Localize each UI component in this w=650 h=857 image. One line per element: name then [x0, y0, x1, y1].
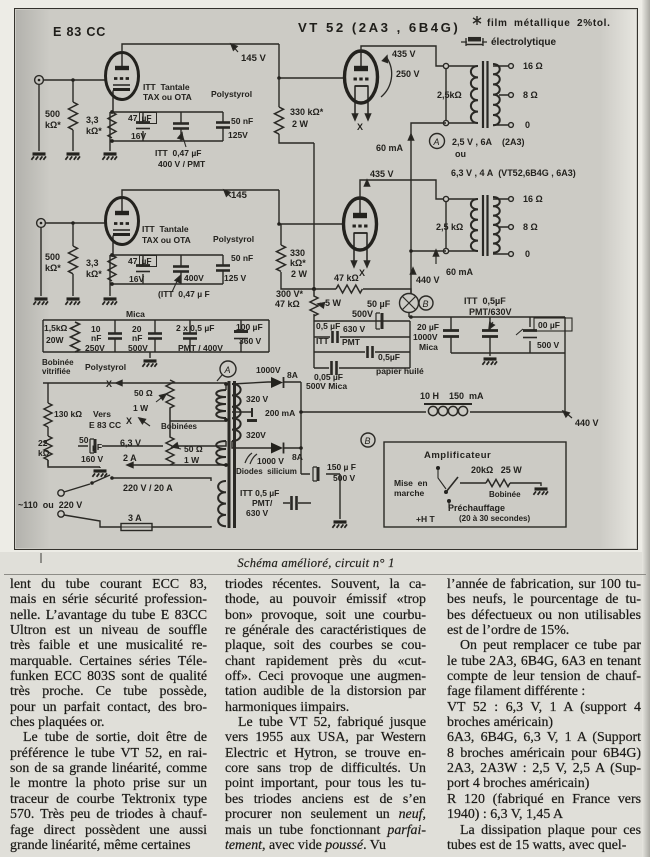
svg-text:ITT 0,47 µF: ITT 0,47 µF	[155, 148, 201, 158]
svg-text:ou: ou	[455, 149, 466, 159]
label 150uF 500V	[327, 462, 356, 483]
label 3,3k ch2	[86, 258, 102, 279]
svg-text:150 µ F: 150 µ F	[327, 462, 356, 472]
legend electrolytic capacitor symbol	[461, 38, 487, 46]
bias bus top ch2	[112, 254, 223, 256]
label 47uF 16V	[128, 113, 152, 141]
label 20nF 500V Mica	[126, 309, 148, 353]
heater secondary winding upper left	[216, 390, 226, 418]
fuse 3A	[64, 515, 211, 531]
label ITT 0,5uF PMT/630V	[464, 296, 512, 317]
svg-text:ITT: ITT	[316, 336, 330, 346]
filament arrows X	[352, 114, 370, 132]
ladder rung 0.5uF papier huile (C9)	[314, 346, 410, 358]
svg-text:500V Mica: 500V Mica	[306, 381, 347, 391]
svg-text:50 µF: 50 µF	[367, 299, 391, 309]
resistor 330k ch2 (R6)	[277, 224, 315, 289]
wire bus to ground	[110, 112, 112, 151]
capacitor 2x0.5uF PMT 400V (C16)	[183, 320, 197, 352]
ground under C12	[482, 359, 497, 365]
label 50uF 500V	[352, 299, 391, 319]
wire jack to grid	[45, 222, 105, 224]
resistor 3.3k cathode (R2)	[108, 112, 116, 138]
decoupling row right edge	[268, 320, 270, 352]
circled B left of box	[361, 433, 375, 447]
choke 10H 150mA	[301, 404, 565, 416]
tube V1b E83CC	[106, 197, 139, 257]
capacitor 20uF 1000V mica (C11)	[443, 317, 459, 353]
diode D2 bottom	[232, 441, 301, 454]
svg-text:330 kΩ*: 330 kΩ*	[290, 107, 324, 117]
svg-text:marche: marche	[394, 488, 425, 498]
wire jack ground drop	[40, 227, 42, 296]
ground in box	[533, 489, 548, 495]
diode D1 top	[232, 377, 301, 388]
label 22k	[38, 438, 50, 458]
resistor 22k (R11)	[44, 436, 52, 466]
heater secondary winding lower left	[216, 441, 226, 465]
circled A heater winding	[430, 134, 445, 149]
svg-text:0,5µF: 0,5µF	[378, 352, 400, 362]
svg-text:kΩ*: kΩ*	[45, 263, 61, 273]
svg-text:200 mA: 200 mA	[265, 408, 295, 418]
svg-text:125V: 125V	[228, 130, 248, 140]
svg-text:630 V: 630 V	[246, 508, 269, 518]
capacitor 20nF 500V (C15)	[148, 320, 162, 352]
secondary coil	[493, 64, 500, 125]
capacitor 150uF 500V (C20)	[301, 467, 340, 481]
wire grid VT52 drop	[279, 44, 345, 78]
svg-text:2,5kΩ: 2,5kΩ	[437, 90, 462, 100]
svg-text:vitrifiée: vitrifiée	[42, 367, 71, 376]
svg-text:Mica: Mica	[419, 342, 438, 352]
svg-text:Polystyrol: Polystyrol	[85, 362, 126, 372]
label Vers E83CC	[89, 409, 121, 430]
resistor 330k grid leak VT52 (R3)	[275, 78, 315, 143]
potentiometer 50 Ohm 1W lower (P2)	[166, 412, 181, 465]
label 50ohm 1W upper	[133, 388, 153, 413]
svg-text:220 V / 20 A: 220 V / 20 A	[123, 483, 173, 493]
svg-text:16 Ω: 16 Ω	[523, 61, 543, 71]
label 47k 300V	[275, 273, 359, 309]
wire anode VT52 to transformer	[361, 46, 443, 66]
bias bus bottom ch2	[112, 283, 223, 285]
svg-text:500: 500	[45, 109, 60, 119]
label 110 ou 220V	[18, 500, 82, 510]
svg-text:PMT: PMT	[342, 337, 361, 347]
svg-text:125 V: 125 V	[224, 273, 247, 283]
ground	[102, 299, 117, 305]
svg-text:0: 0	[525, 120, 530, 130]
SVG schematic placeholder	[0, 0, 650, 552]
left terminal joining wire	[445, 68, 447, 121]
svg-text:250 V: 250 V	[396, 69, 420, 79]
terminal circle T2 top	[443, 196, 448, 201]
svg-text:kΩ*: kΩ*	[290, 258, 306, 268]
capacitor ITT 0,5uF 630V bottom (C19)	[283, 496, 311, 510]
svg-text:B: B	[423, 299, 429, 309]
output transformer T2	[443, 195, 513, 256]
svg-text:A: A	[224, 365, 231, 375]
svg-text:400V: 400V	[184, 273, 204, 283]
svg-text:330: 330	[290, 248, 305, 258]
svg-text:50 nF: 50 nF	[231, 116, 253, 126]
svg-text:435 V: 435 V	[370, 169, 394, 179]
ground	[102, 154, 117, 160]
svg-text:5 W: 5 W	[325, 298, 342, 308]
tube V2 VT52 channel1	[345, 51, 378, 115]
svg-text:1000 V: 1000 V	[257, 456, 284, 466]
svg-text:E 83 CC: E 83 CC	[53, 25, 106, 39]
resistor 500k grid (R1)	[69, 78, 78, 151]
filter top rail	[409, 316, 565, 318]
filter right vertical	[564, 317, 566, 412]
wire anode VT52 ch2 to transformer	[360, 180, 443, 199]
capacitor 47uF ch2 C4	[136, 255, 157, 284]
svg-text:Amplificateur: Amplificateur	[424, 450, 491, 461]
svg-text:X: X	[357, 122, 363, 132]
svg-text:µF: µF	[142, 256, 152, 266]
control box rectangle	[384, 442, 566, 527]
label 500k ch2	[45, 252, 61, 273]
label 50uF 160V	[79, 435, 104, 464]
svg-text:0: 0	[525, 249, 530, 259]
decoupling ladder left rail	[313, 321, 315, 368]
svg-text:kΩ*: kΩ*	[86, 126, 102, 136]
wire bus to ground ch2	[110, 255, 112, 296]
label Mise en marche	[394, 478, 428, 498]
bias bus top	[112, 111, 223, 113]
svg-text:6,3 V , 4 A (VT52,6B4G , 6A3): 6,3 V , 4 A (VT52,6B4G , 6A3)	[451, 168, 576, 178]
svg-text:+H T: +H T	[416, 514, 435, 524]
svg-text:20W: 20W	[46, 335, 64, 345]
svg-text:400 V / PMT: 400 V / PMT	[158, 159, 206, 169]
channel1 component labels	[143, 82, 253, 169]
ladder top rung	[314, 320, 410, 322]
svg-text:Diodes silicium: Diodes silicium	[236, 467, 297, 476]
label 330k 2W	[290, 107, 324, 129]
label 1000V 8A bottom with slashes	[245, 452, 303, 466]
meter fuse circle	[400, 294, 419, 313]
decoupling ladder right rail	[409, 321, 411, 368]
label 330k ch2	[290, 248, 308, 279]
capacitor 100uF 360V (C17)	[234, 320, 248, 352]
label 0.5uF papier	[376, 352, 424, 376]
primary coil	[448, 66, 478, 123]
B+ rail from T1	[411, 123, 446, 294]
svg-text:Polystyrol: Polystyrol	[211, 89, 252, 99]
decoupling row top bus	[43, 319, 269, 321]
wire 2A arrow line	[127, 462, 226, 467]
label 100uF boxed	[534, 318, 572, 350]
svg-text:ITT Tantale: ITT Tantale	[143, 82, 190, 92]
svg-text:(20 à 30 secondes): (20 à 30 secondes)	[459, 514, 530, 523]
resistor 3.3k cathode ch2 (R5)	[108, 255, 116, 281]
svg-text:nF: nF	[91, 333, 101, 343]
svg-text:50 Ω: 50 Ω	[134, 388, 153, 398]
svg-text:Préchauffage: Préchauffage	[448, 503, 505, 513]
label 50ohm 1W lower	[184, 444, 203, 465]
145 tick arrow ch2	[224, 190, 231, 197]
ground stub decoupling row	[149, 352, 151, 358]
label ITT 0,5uF PMT 630V	[240, 488, 279, 518]
svg-text:8A: 8A	[287, 370, 298, 380]
svg-text:Mica: Mica	[126, 309, 145, 319]
resistor 1.5k 20W (R9)	[71, 322, 80, 352]
svg-text:100 µF: 100 µF	[236, 322, 263, 332]
wire jack ground drop	[38, 84, 40, 151]
svg-text:630 V: 630 V	[343, 324, 366, 334]
svg-text:1000V: 1000V	[413, 332, 438, 342]
svg-text:20kΩ 25 W: 20kΩ 25 W	[471, 465, 522, 475]
capacitor 100uF 500V (C13)	[516, 317, 537, 353]
ground	[33, 299, 48, 305]
titles and legend	[53, 18, 611, 48]
label 3,3 kOhm	[86, 115, 102, 136]
label 100uF 360V	[236, 322, 263, 346]
svg-text:250V: 250V	[85, 343, 105, 353]
svg-text:PMT/: PMT/	[252, 498, 273, 508]
labels 0.5uF 630V ITT PMT	[316, 321, 366, 347]
svg-text:ITT 0,5µF: ITT 0,5µF	[464, 296, 506, 306]
svg-text:(ITT 0,47 µ F: (ITT 0,47 µ F	[158, 289, 210, 299]
svg-text:00 µF: 00 µF	[538, 320, 560, 330]
X arrow top	[106, 379, 226, 389]
capacitor 0.47uF ch2 C5	[173, 255, 189, 284]
svg-text:Vers: Vers	[93, 409, 111, 419]
labels T2	[436, 194, 543, 259]
svg-text:16V: 16V	[131, 131, 146, 141]
svg-text:ITT 0,5 µF: ITT 0,5 µF	[240, 488, 279, 498]
svg-text:kΩ*: kΩ*	[45, 120, 61, 130]
svg-text:3,3: 3,3	[86, 258, 99, 268]
svg-text:130 kΩ: 130 kΩ	[54, 409, 82, 419]
ladder rung 0.5uF 630V (C8)	[314, 331, 410, 343]
440V output arrow	[561, 409, 598, 428]
svg-text:47 kΩ: 47 kΩ	[275, 299, 300, 309]
label 1,5k 20W	[44, 323, 68, 345]
svg-text:2,5 kΩ: 2,5 kΩ	[436, 222, 463, 232]
heater supply labels	[451, 137, 576, 178]
B+ rail from T2	[411, 250, 446, 252]
svg-text:2 W: 2 W	[292, 119, 309, 129]
mains terminal upper	[58, 490, 64, 496]
decoupling row bottom bus	[43, 351, 269, 353]
svg-text:47: 47	[128, 256, 138, 266]
wire 150uF to ground	[339, 474, 341, 519]
ground	[65, 154, 80, 160]
ground	[332, 522, 347, 528]
svg-text:3,3: 3,3	[86, 115, 99, 125]
ground	[65, 299, 80, 305]
svg-text:320V: 320V	[246, 430, 266, 440]
svg-text:Bobinées: Bobinées	[161, 422, 198, 431]
terminal circle	[443, 63, 448, 68]
440V label on rail	[410, 268, 439, 285]
labels T1	[437, 61, 543, 130]
svg-text:2,5 V , 6A (2A3): 2,5 V , 6A (2A3)	[452, 137, 525, 147]
labels bobinee vitrifiee polystyrol	[42, 358, 126, 376]
svg-text:PMT/630V: PMT/630V	[469, 307, 512, 317]
mains terminal lower	[58, 511, 64, 517]
tube V1a E83CC	[106, 52, 139, 112]
svg-text:1 W: 1 W	[133, 403, 149, 413]
svg-text:TAX ou OTA: TAX ou OTA	[143, 92, 192, 102]
label 2x 0,5uF PMT/400V	[176, 323, 223, 353]
svg-text:145 V: 145 V	[241, 53, 266, 64]
label 1000V 8A top	[256, 365, 298, 380]
svg-text:360 V: 360 V	[239, 336, 262, 346]
svg-text:1,5kΩ: 1,5kΩ	[44, 323, 68, 333]
145V tick arrow	[231, 44, 238, 52]
svg-text:ITT Tantale: ITT Tantale	[142, 224, 189, 234]
svg-text:2 W: 2 W	[291, 269, 308, 279]
legend star symbol	[473, 16, 481, 25]
label 20uF 1000V Mica	[413, 322, 439, 352]
svg-text:nF: nF	[132, 333, 142, 343]
capacitor 47uF electrolytic C1	[136, 112, 157, 141]
svg-text:47: 47	[128, 113, 138, 123]
svg-text:440 V: 440 V	[575, 418, 599, 428]
arrow to 0.47uF ch2	[172, 277, 179, 292]
capacitor 50uF 160V (C18)	[78, 439, 112, 453]
HV secondary winding right	[232, 384, 241, 441]
circled A above transformer	[217, 361, 236, 381]
svg-text:Mise en: Mise en	[394, 478, 428, 488]
svg-text:électrolytique: électrolytique	[491, 37, 556, 48]
svg-text:0,5 µF: 0,5 µF	[316, 321, 340, 331]
output transformer T1	[443, 61, 513, 128]
resistor 47k vertical 5W (R8)	[310, 289, 318, 321]
svg-text:500 V: 500 V	[537, 340, 560, 350]
wire 6,3V line	[112, 445, 163, 447]
core	[483, 61, 488, 128]
transformer core	[229, 381, 235, 528]
resistor 20k 25W preheat (R12)	[486, 479, 541, 486]
ground	[142, 361, 157, 367]
svg-text:16V: 16V	[129, 274, 144, 284]
wire anode 145 ch2	[122, 190, 279, 197]
svg-text:A: A	[433, 137, 440, 147]
svg-text:60 mA: 60 mA	[446, 267, 474, 277]
svg-text:Bobinée: Bobinée	[42, 358, 74, 367]
svg-text:16 Ω: 16 Ω	[523, 194, 543, 204]
svg-text:µF: µF	[142, 113, 152, 123]
label 5W with arrow	[317, 298, 342, 308]
svg-text:X: X	[359, 268, 365, 278]
ground under 22k	[48, 460, 100, 468]
svg-text:2 A: 2 A	[123, 453, 137, 463]
resistor 500k grid (R4)	[69, 221, 78, 296]
label 0.05uF 500V Mica	[306, 372, 347, 391]
bias rail vertical	[313, 143, 315, 289]
resistor 47k horizontal (R7)	[312, 285, 411, 294]
435V curved arrow	[381, 58, 392, 97]
capacitor 10nF 250V (C14)	[108, 320, 122, 352]
decoupling row left edge	[42, 320, 44, 352]
svg-text:500 V: 500 V	[333, 473, 356, 483]
switch HT	[436, 466, 486, 508]
svg-text:10 H 150 mA: 10 H 150 mA	[420, 391, 484, 401]
svg-text:kΩ: kΩ	[38, 448, 50, 458]
435V tick ch2	[364, 180, 369, 186]
svg-text:X: X	[106, 379, 112, 389]
capacitor 0.47uF film C2	[173, 112, 189, 141]
svg-text:440 V: 440 V	[416, 275, 440, 285]
svg-text:~110 ou 220 V: ~110 ou 220 V	[18, 500, 82, 510]
labels 320V	[246, 394, 269, 440]
svg-text:2 x 0,5 µF: 2 x 0,5 µF	[176, 323, 214, 333]
svg-text:µF: µF	[92, 442, 102, 452]
svg-text:50 nF: 50 nF	[231, 253, 253, 263]
X arrow middle	[126, 416, 150, 426]
svg-text:60 mA: 60 mA	[376, 143, 404, 153]
svg-text:47 kΩ: 47 kΩ	[334, 273, 359, 283]
ladder bottom rung with 0.05uF (C10)	[314, 361, 410, 375]
bias bus bottom	[112, 140, 223, 142]
DC bus joining diodes	[300, 382, 302, 474]
svg-text:3 A: 3 A	[128, 513, 142, 523]
potentiometer 50 Ohm 1W upper (P1)	[156, 380, 174, 412]
svg-text:145: 145	[231, 190, 248, 201]
capacitor 0.5uF PMT 630V (C12)	[482, 317, 498, 356]
svg-text:Polystyrol: Polystyrol	[213, 234, 254, 244]
60mA arrow ch1	[376, 134, 414, 153]
svg-text:E 83 CC: E 83 CC	[89, 420, 121, 430]
svg-text:film métallique 2%tol.: film métallique 2%tol.	[487, 18, 611, 29]
capacitor 50nF ch2 C6	[216, 255, 230, 284]
svg-text:500V: 500V	[128, 343, 148, 353]
input jack J2	[37, 219, 46, 228]
wire jack to grid	[43, 79, 105, 81]
svg-text:435 V: 435 V	[392, 49, 416, 59]
label 500 kOhm	[45, 109, 61, 130]
taps	[493, 66, 508, 125]
svg-text:Bobinée: Bobinée	[489, 490, 521, 499]
resistor 130k (R10)	[43, 383, 122, 436]
filament arrows X ch2	[351, 261, 369, 278]
svg-text:8 Ω: 8 Ω	[523, 222, 538, 232]
labels 6,3V 2A	[120, 438, 141, 463]
HV center tap 200mA	[232, 408, 295, 421]
svg-text:320 V: 320 V	[246, 394, 269, 404]
tube V3 VT52 channel2	[344, 198, 377, 262]
wire anode 145V	[122, 44, 279, 52]
label 47uF ch2	[128, 256, 152, 284]
capacitor 50nF C3	[216, 112, 230, 141]
svg-text:1000V: 1000V	[256, 365, 281, 375]
wire meter to filter rail	[408, 313, 410, 317]
svg-text:20 µF: 20 µF	[417, 322, 439, 332]
svg-text:500: 500	[45, 252, 60, 262]
svg-text:22: 22	[38, 438, 48, 448]
svg-text:500V: 500V	[352, 309, 373, 319]
svg-text:kΩ*: kΩ*	[86, 269, 102, 279]
channel2 component labels	[142, 224, 254, 299]
label 10nF 250V	[85, 324, 105, 353]
label 435V 250V	[392, 49, 420, 79]
60mA arrow ch2	[433, 250, 473, 277]
svg-text:50: 50	[79, 435, 89, 445]
wire grid VT52 ch2	[279, 190, 344, 224]
arrow to 0.47uF	[182, 134, 186, 147]
input jack J1	[35, 76, 44, 85]
svg-text:B: B	[365, 436, 371, 446]
filter bottom rail	[451, 352, 565, 354]
svg-text:TAX ou OTA: TAX ou OTA	[142, 235, 191, 245]
svg-text:160 V: 160 V	[81, 454, 104, 464]
ground	[31, 154, 46, 160]
